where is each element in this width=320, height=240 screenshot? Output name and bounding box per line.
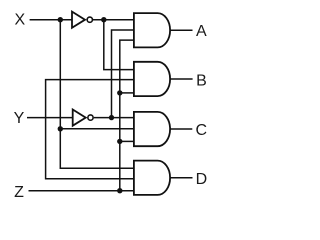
svg-text:C: C (196, 122, 208, 139)
wire net to AND B input 2 and AND D input 2 (46, 80, 135, 179)
junction dot Z to C (117, 139, 122, 144)
wire X branch to AND C input 2 (60, 128, 134, 130)
AND gate C (134, 112, 170, 146)
svg-text:Z: Z (14, 184, 24, 201)
wire output C (170, 128, 192, 130)
wire X vertical branch down to AND D input 1 (60, 20, 134, 169)
wire X' from inverter U1 to AND A input 1 (93, 19, 135, 21)
wire Z branch to AND C input 3 (120, 140, 135, 142)
inverter U2 on Y line (73, 110, 86, 126)
bubble of inverter U1 (87, 17, 92, 22)
wire Z branch to AND B input 3 (120, 92, 135, 94)
svg-text:Y: Y (14, 110, 25, 127)
wire output A (170, 29, 193, 31)
junction dot Z to B (117, 90, 122, 95)
wire Y input (27, 117, 73, 119)
svg-text:B: B (196, 72, 207, 89)
junction dot X branch (58, 17, 63, 22)
wire output D (170, 177, 193, 179)
junction dot X' branch (101, 17, 106, 22)
junction dot Y' branch (109, 115, 114, 120)
wire X' vertical branch down to AND B input 1 (104, 20, 135, 70)
AND gate A (134, 13, 170, 47)
svg-text:D: D (196, 171, 208, 188)
AND gate B (134, 62, 170, 96)
junction dot Z line (117, 188, 122, 193)
AND gate D (134, 161, 170, 195)
wire output B (170, 78, 193, 80)
junction dot X to C (58, 126, 63, 131)
wire Y' from inverter U2 to AND C input 1 (94, 117, 134, 119)
wire Z input to AND D input 3 (29, 190, 135, 192)
wire Y' vertical branch up to AND A input 2 (112, 30, 135, 118)
wire Z vertical branch up to AND A input 3 (120, 40, 135, 191)
wire X input (30, 19, 72, 21)
svg-text:X: X (14, 12, 25, 29)
svg-text:A: A (196, 23, 207, 40)
bubble of inverter U2 (88, 115, 93, 120)
inverter U1 on X line (72, 12, 85, 28)
